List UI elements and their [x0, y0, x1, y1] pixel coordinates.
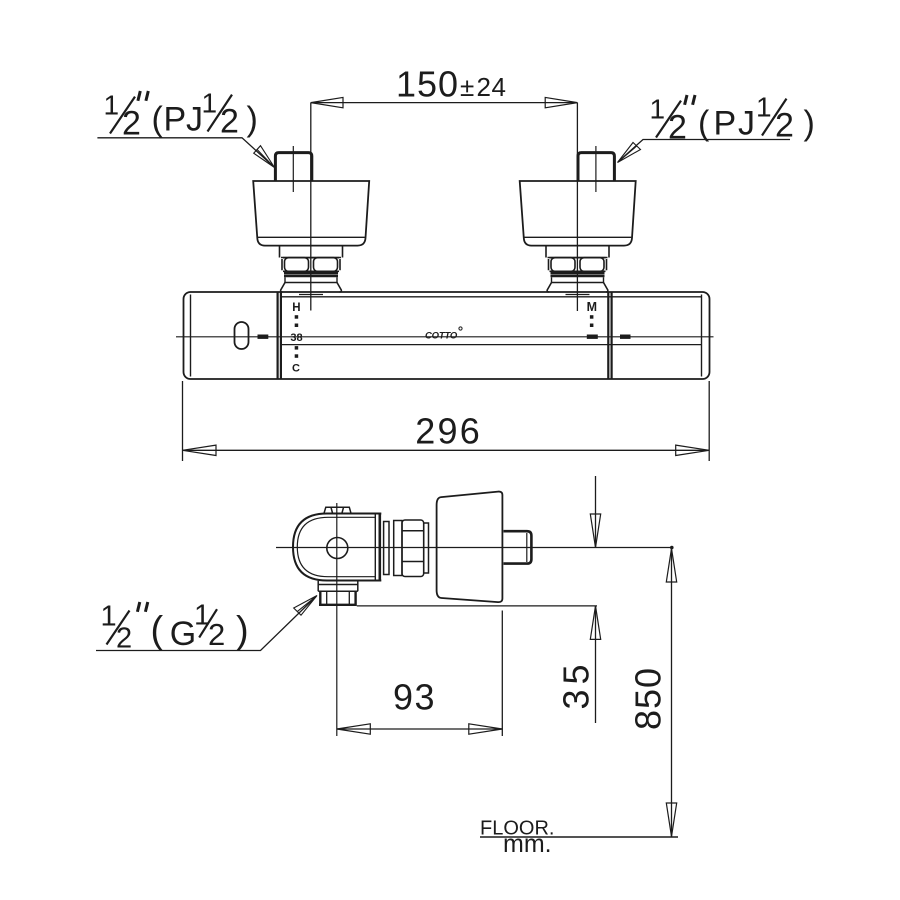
- scale 38 mark: [290, 332, 302, 344]
- 850 text rotated: [628, 667, 669, 730]
- left label fraction slashes: [110, 95, 232, 134]
- svg-text:M: M: [587, 300, 597, 314]
- svg-text:(: (: [151, 610, 164, 652]
- right label inch ticks: [685, 95, 695, 105]
- side top tab: [324, 507, 351, 513]
- left joint double line: [278, 293, 281, 379]
- connector band 2: [394, 521, 402, 576]
- connector band 3: [424, 523, 429, 573]
- right end cap inner line: [701, 295, 703, 377]
- svg-text:38: 38: [290, 332, 302, 344]
- side stub inner line: [526, 533, 528, 562]
- temperature scale H mark: [292, 302, 300, 314]
- left label inch ticks: [138, 91, 148, 101]
- 35 text rotated: [555, 659, 596, 709]
- svg-text:1: 1: [650, 94, 666, 125]
- side stub knob: [504, 531, 532, 563]
- main body outline: [184, 292, 710, 379]
- G label fraction slashes: [107, 609, 218, 644]
- right escutcheon trapezoid: [520, 181, 636, 246]
- left escutcheon trapezoid: [253, 181, 369, 246]
- left label underline and leader: [97, 138, 273, 167]
- right seal band: [551, 273, 605, 276]
- right handle M mark: [587, 300, 597, 314]
- svg-text:296: 296: [415, 410, 482, 451]
- 93 text: [393, 677, 436, 718]
- right collar band: [552, 277, 604, 282]
- right label text: [650, 92, 815, 147]
- 93 dim line: [337, 728, 503, 730]
- body seam line: [281, 344, 702, 346]
- 93 arrow left: [337, 724, 371, 734]
- side outlet facet lines: [327, 592, 350, 605]
- svg-text:24: 24: [477, 72, 507, 102]
- right handle dots: [590, 315, 594, 327]
- left flange: [281, 283, 342, 293]
- svg-text:C: C: [292, 363, 300, 375]
- svg-text:): ): [236, 610, 249, 652]
- svg-text:P: P: [714, 105, 737, 143]
- 850 arrow down: [666, 803, 676, 837]
- svg-text:2: 2: [208, 617, 225, 652]
- FLOOR text: [480, 818, 554, 840]
- svg-text:850: 850: [628, 667, 669, 730]
- left label text: [104, 88, 258, 143]
- 150 dim arrow left: [311, 97, 343, 107]
- svg-text:(: (: [152, 101, 164, 139]
- side body right cap double line: [375, 514, 380, 581]
- right hex nut: [549, 258, 607, 272]
- svg-text:150: 150: [396, 64, 459, 105]
- side horizontal centerline: [276, 547, 673, 549]
- scale dots upper: [295, 315, 299, 327]
- 296 arrow left: [183, 445, 217, 455]
- svg-text:J: J: [186, 101, 203, 139]
- 850 dim line: [671, 548, 673, 837]
- 850 junction dot: [670, 546, 674, 550]
- side handle: [437, 492, 503, 603]
- horizontal centerline of body: [176, 336, 714, 338]
- svg-text:P: P: [164, 101, 187, 139]
- 93 extension right: [501, 611, 503, 737]
- floor line: [480, 836, 678, 838]
- side body inner contour: [297, 517, 375, 576]
- 35 dim line lower: [595, 606, 597, 723]
- scale C mark: [292, 363, 300, 375]
- right inlet nipple: [578, 153, 614, 181]
- 150 dim line: [311, 102, 578, 104]
- svg-text:1: 1: [101, 601, 117, 633]
- svg-text:J: J: [738, 105, 755, 143]
- alignment dash right of right joint: [620, 335, 631, 339]
- left neck: [280, 246, 343, 258]
- svg-text:H: H: [292, 302, 300, 314]
- G label text: [101, 600, 249, 655]
- 296 extension line right: [708, 381, 710, 461]
- svg-text:1: 1: [756, 92, 772, 123]
- body inner top line: [281, 296, 701, 298]
- left nipple centerline: [292, 146, 294, 192]
- svg-text:G: G: [170, 615, 196, 653]
- COTTO logo on body: [425, 327, 462, 341]
- 296 extension line left: [182, 381, 184, 461]
- 296 text: [415, 410, 482, 451]
- alignment dash left of left joint: [258, 335, 269, 339]
- bottom tangent line to 35 extension: [357, 605, 597, 607]
- G label leader arrowhead: [294, 596, 317, 616]
- svg-text:): ): [804, 105, 815, 143]
- side small circle: [327, 538, 348, 559]
- 35 arrow up: [590, 606, 600, 640]
- right under-flange line: [566, 294, 590, 296]
- 35 dim line upper: [595, 476, 597, 548]
- 150 dim text: [396, 64, 506, 105]
- right joint double line: [608, 293, 611, 379]
- right label leader arrowhead: [618, 143, 641, 163]
- 296 dim line: [183, 449, 710, 451]
- side outlet flange: [318, 581, 358, 592]
- mm text: [503, 830, 552, 858]
- 93 arrow right: [469, 724, 503, 734]
- left hex nut: [282, 258, 340, 272]
- svg-text:(: (: [698, 105, 710, 143]
- alignment dash left of right joint: [587, 335, 598, 339]
- right label underline and leader: [619, 140, 791, 162]
- left under-flange line: [299, 294, 323, 296]
- left seal band: [284, 273, 338, 276]
- 35 arrow down: [590, 514, 600, 548]
- right nipple centerline: [595, 146, 597, 192]
- left label leader arrowhead: [254, 146, 275, 168]
- svg-text:1: 1: [104, 90, 120, 121]
- left collar band: [285, 277, 337, 282]
- svg-text:COTTO: COTTO: [425, 330, 458, 341]
- side vertical centerline: [336, 503, 338, 736]
- 150 dim extension line right: [576, 103, 578, 311]
- svg-text:35: 35: [555, 659, 596, 709]
- right neck: [546, 246, 609, 258]
- svg-text:): ): [247, 101, 258, 139]
- connector band 1: [384, 522, 389, 575]
- right flange: [547, 283, 608, 293]
- 150 dim extension line left: [310, 103, 312, 311]
- svg-text:±: ±: [460, 72, 474, 102]
- svg-text:93: 93: [393, 677, 436, 718]
- 850 arrow up: [666, 549, 676, 583]
- side outlet hex: [319, 592, 357, 605]
- capsule button on left handle: [235, 322, 249, 349]
- G label inch ticks: [137, 602, 147, 612]
- right label fraction slashes: [656, 99, 787, 138]
- svg-text:mm.: mm.: [503, 830, 552, 858]
- connector hex nut side: [402, 520, 424, 577]
- 296 arrow right: [676, 445, 710, 455]
- svg-text:1: 1: [202, 88, 218, 119]
- side body outer contour: [293, 514, 381, 581]
- G label underline and leader: [96, 597, 316, 651]
- left end cap inner line: [190, 295, 192, 377]
- left inlet nipple: [275, 153, 311, 181]
- scale dots lower: [295, 346, 299, 358]
- 150 dim arrow right: [545, 97, 577, 107]
